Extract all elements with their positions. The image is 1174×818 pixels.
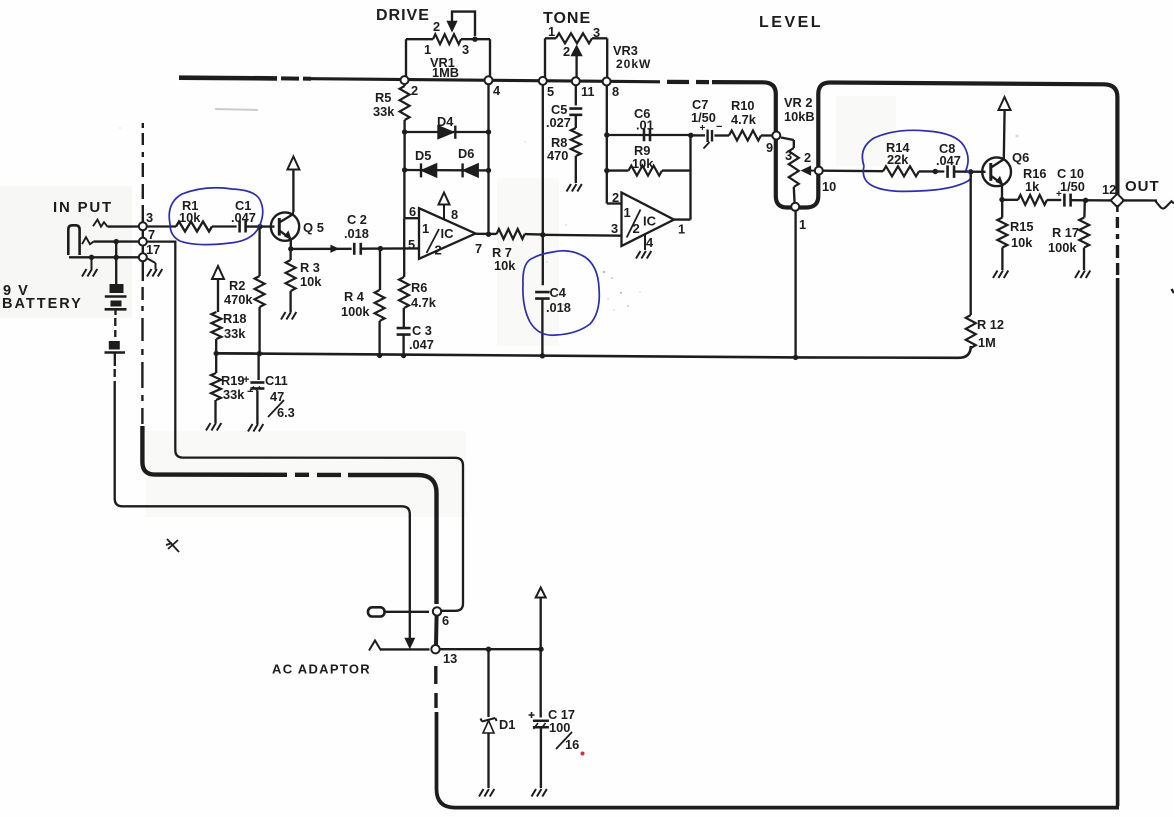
svg-text:Q6: Q6 <box>1012 150 1029 165</box>
svg-text:3: 3 <box>146 210 153 225</box>
svg-text:OUT: OUT <box>1125 178 1160 195</box>
svg-text:10k: 10k <box>494 258 516 273</box>
wire node11 to C5 <box>575 85 577 106</box>
svg-text:R6: R6 <box>411 280 427 295</box>
node 9 <box>772 132 780 140</box>
label C5 <box>551 102 567 117</box>
svg-text:R 17: R 17 <box>1052 225 1079 240</box>
wire VR3 right terminal <box>592 38 607 78</box>
label C4 <box>550 285 567 300</box>
label OUT <box>1125 178 1160 195</box>
wire sleeve ground stub <box>91 257 93 269</box>
label 12 <box>1102 182 1116 197</box>
wire C4 to rail <box>541 299 543 356</box>
capacitor C7 <box>704 130 713 149</box>
svg-text:2: 2 <box>804 150 811 165</box>
wire R2 to C11 <box>259 307 260 380</box>
svg-text:1k: 1k <box>1025 179 1040 194</box>
wiper arrow VR1 <box>448 12 476 36</box>
svg-text:C 2: C 2 <box>347 212 367 227</box>
ground (R15) <box>993 271 1008 279</box>
svg-text:100k: 100k <box>1048 240 1077 255</box>
diode D6 <box>463 163 479 177</box>
wire R1 to C1 <box>212 225 237 227</box>
power arrow Q6 <box>999 97 1011 110</box>
resistor R14 <box>883 166 919 176</box>
wire R18 junction to R2 <box>216 352 259 355</box>
faint scan artifact <box>215 109 258 110</box>
svg-text:.047: .047 <box>936 153 961 168</box>
wire C3 to rail <box>402 335 404 356</box>
svg-text:20kW: 20kW <box>616 57 651 71</box>
label R14 <box>886 140 910 155</box>
svg-text:.018: .018 <box>344 226 369 241</box>
label R1 value <box>179 210 201 225</box>
label C10 value <box>1060 179 1085 194</box>
wire right side dash-dot <box>1116 205 1119 275</box>
wire C5 to R8 <box>575 115 577 128</box>
label R5 <box>375 90 391 105</box>
svg-text:3: 3 <box>611 221 618 236</box>
wire bottom rail <box>437 712 1120 808</box>
potentiometer VR3 body <box>556 33 592 43</box>
node 7 <box>139 238 147 246</box>
resistor R5 <box>400 84 410 120</box>
junction dot R14-C8 <box>933 169 938 174</box>
svg-text:1: 1 <box>422 221 429 236</box>
label VR3 value <box>616 57 651 71</box>
capacitor C8 <box>948 165 955 178</box>
battery BT1 cell plates <box>105 284 127 315</box>
wire D4-D5 segment <box>403 132 405 170</box>
svg-text:470k: 470k <box>224 292 253 307</box>
wire pin3 of U1b <box>543 234 622 237</box>
svg-text:R5: R5 <box>375 90 391 105</box>
wire R4 top <box>379 249 381 290</box>
label TONE <box>543 10 591 27</box>
label half IC (U1a) <box>422 221 454 258</box>
svg-text:R 4: R 4 <box>344 289 365 304</box>
svg-text:22k: 22k <box>887 152 909 167</box>
wire battery dashed <box>114 318 116 337</box>
ground (C17) <box>532 789 547 797</box>
svg-text:C 3: C 3 <box>412 323 432 338</box>
wire jack sleeve line <box>69 256 144 258</box>
label 3 (VR3 pin) <box>593 25 600 40</box>
wire jack tip contact <box>93 220 140 227</box>
label R2 <box>229 278 245 293</box>
junction dot VR1 wiper <box>472 37 477 42</box>
C11 value slash <box>268 400 284 417</box>
capacitor C4 <box>535 292 550 299</box>
svg-text:10: 10 <box>822 179 836 194</box>
resistor R6 <box>399 277 409 308</box>
label R4 <box>344 289 365 304</box>
label C17 plus <box>529 712 535 718</box>
label R18 value <box>224 326 246 341</box>
transistor Q6 <box>982 157 1011 186</box>
label 2 (VR3 wiper) <box>563 44 570 59</box>
wire R6 to C3 <box>403 308 405 328</box>
label 7 <box>148 227 155 242</box>
svg-text:6: 6 <box>442 613 449 628</box>
label R12 value <box>978 335 996 350</box>
wire mid rail <box>216 346 971 358</box>
label R15 <box>1010 219 1033 234</box>
wire node4 down to output <box>487 83 489 234</box>
blue pen circle around R1 C1 <box>169 188 263 245</box>
wire R14 to C8 <box>919 170 944 172</box>
junction dot Q5 emitter <box>288 246 293 251</box>
arrowhead onto adaptor line <box>406 639 415 648</box>
wire node3-7-17 column <box>142 230 144 254</box>
label DRIVE <box>376 7 430 24</box>
junction dot D4 right <box>486 129 491 134</box>
ground (R17) <box>1075 271 1090 279</box>
resistor R3 <box>286 260 296 291</box>
label Q6 <box>1012 150 1029 165</box>
wire R7 to node5 line <box>525 233 543 236</box>
wire R2 top <box>258 227 260 276</box>
label R16 value <box>1025 179 1040 194</box>
svg-text:IC: IC <box>643 214 657 229</box>
capacitor C2 <box>354 243 361 255</box>
label R4 value <box>341 304 370 319</box>
resistor R15 <box>997 218 1007 248</box>
label C17 value 16 <box>565 737 579 752</box>
svg-text:2: 2 <box>563 44 570 59</box>
svg-text:9: 9 <box>766 140 773 155</box>
wire VR1 right terminal <box>461 39 490 77</box>
wire R10 to node9 <box>761 134 773 136</box>
svg-text:33k: 33k <box>223 387 245 402</box>
svg-text:R18: R18 <box>223 311 246 326</box>
flow arrowhead on wire <box>331 246 338 252</box>
power arrow Q5 collector <box>287 157 299 170</box>
junction dot node1-rail <box>793 355 798 360</box>
label C11 value 6.3 <box>277 405 295 420</box>
blue pen circle around C4 <box>523 251 599 335</box>
junction dot C10-R17 <box>1083 198 1088 203</box>
resistor R19 <box>211 373 221 400</box>
label VR1 <box>430 55 455 70</box>
svg-text:1: 1 <box>624 205 631 220</box>
label C11 <box>265 373 288 388</box>
label half IC (U1b) <box>624 205 657 238</box>
label R10 value <box>731 112 757 127</box>
wire U1b output <box>674 135 691 219</box>
label pin 5 <box>408 237 415 252</box>
capacitor C10 <box>1064 194 1070 207</box>
wire node5 down <box>542 85 544 286</box>
svg-text:−: − <box>716 121 722 133</box>
svg-text:4.7k: 4.7k <box>731 112 757 127</box>
wire node6-node13 segment <box>434 616 439 646</box>
label R19 <box>221 373 244 388</box>
ground (R19) <box>206 423 221 431</box>
label R3 <box>300 260 320 275</box>
wire R18 to R19 <box>215 339 217 373</box>
svg-text:1/50: 1/50 <box>1060 179 1085 194</box>
svg-text:2: 2 <box>411 83 418 98</box>
wire C17 top <box>540 598 542 718</box>
wire top bus dashed segment <box>667 80 709 84</box>
junction dot base-R2 <box>257 224 262 229</box>
wire C17 bottom <box>540 727 542 788</box>
resistor R1 <box>176 222 212 232</box>
power arrow R18 top <box>212 266 224 312</box>
svg-text:100: 100 <box>549 720 570 735</box>
dc jack plug <box>368 607 429 616</box>
junction dot C3-rail <box>401 353 406 358</box>
label R7 value <box>494 258 516 273</box>
label R12 <box>977 317 1004 332</box>
ground (C11) <box>248 424 263 432</box>
capacitor C17 electrolytic <box>533 721 549 729</box>
label 1 (VR3 pin) <box>548 24 555 39</box>
wire U1b pin4 <box>644 235 646 251</box>
junction dot emitter node <box>999 197 1004 202</box>
wire emitter to C2 <box>291 248 352 250</box>
resistor R18 <box>211 312 221 339</box>
svg-text:VR 2: VR 2 <box>784 95 812 110</box>
junction dot R2-rail <box>257 351 262 356</box>
svg-text:6.3: 6.3 <box>277 405 295 420</box>
output jack contact <box>1155 201 1174 293</box>
label 13 <box>443 651 457 666</box>
svg-text:4: 4 <box>646 235 654 250</box>
svg-text:4.7k: 4.7k <box>411 295 437 310</box>
wire emitter to R16 <box>1002 199 1018 201</box>
svg-text:LEVEL: LEVEL <box>759 14 823 31</box>
node 2 <box>401 76 409 84</box>
label R5 value <box>373 104 395 119</box>
label R9 <box>634 143 650 158</box>
node 13 <box>431 645 439 653</box>
label R3 value <box>300 274 322 289</box>
svg-text:D5: D5 <box>415 148 431 163</box>
ground (R3) <box>281 312 296 320</box>
label C1 value <box>231 210 256 225</box>
node 3 <box>139 222 147 230</box>
node 8 <box>603 78 611 86</box>
transistor Q5 <box>271 212 299 240</box>
capacitor C11 electrolytic <box>250 383 264 391</box>
svg-text:1: 1 <box>799 217 806 232</box>
ground (input sleeve) <box>82 269 97 277</box>
junction dot C4-rail <box>540 353 545 358</box>
label 17 <box>146 242 160 257</box>
wire C11 to ground <box>256 391 258 425</box>
label C7 plus <box>700 121 723 134</box>
adaptor tip contact <box>369 641 430 651</box>
wire D5 D6 line <box>405 169 489 172</box>
svg-text:2: 2 <box>633 221 640 236</box>
svg-text:1: 1 <box>678 222 685 237</box>
junction dot R7-pin3 <box>540 232 545 237</box>
capacitor C3 <box>397 328 411 335</box>
svg-text:470: 470 <box>547 148 568 163</box>
wiper arrow VR3 <box>572 46 582 78</box>
resistor R12 <box>966 315 976 348</box>
svg-text:IN PUT: IN PUT <box>53 199 113 216</box>
junction dot D6 right <box>486 168 491 173</box>
resistor R12 wire <box>970 172 972 315</box>
wire jack ring contact <box>82 237 140 244</box>
label C11 value 47 <box>270 389 284 404</box>
svg-text:.018: .018 <box>546 300 571 315</box>
svg-text:C4: C4 <box>550 285 567 300</box>
junction dot battery tap <box>114 239 119 244</box>
junction dot base-R12 <box>968 169 973 174</box>
wire node10 to R14 <box>823 170 883 173</box>
svg-text:5: 5 <box>547 84 554 99</box>
resistor R17 <box>1079 218 1089 248</box>
resistor R10 <box>729 131 761 141</box>
wire top bus left segment <box>179 78 311 79</box>
wire node8 down to pin2 <box>607 85 622 204</box>
junction dot R4-rail <box>377 353 382 358</box>
battery BT1 lower cell <box>105 341 126 366</box>
label C1 <box>235 198 251 213</box>
svg-text:10k: 10k <box>632 156 654 171</box>
wire Q6 collector <box>1003 110 1006 159</box>
label C6 value <box>636 118 654 133</box>
svg-text:C11: C11 <box>265 373 288 388</box>
label C17 <box>548 707 575 722</box>
svg-text:33k: 33k <box>373 104 395 119</box>
svg-text:2: 2 <box>433 19 440 34</box>
svg-text:D6: D6 <box>458 146 474 161</box>
ground (U1b pin4) <box>636 251 651 259</box>
wiper arrow VR2 <box>802 167 816 175</box>
label R1 <box>182 198 198 213</box>
wire VR2 top terminal <box>781 138 794 149</box>
label R6 value <box>411 295 437 310</box>
wire D4 line <box>405 131 489 133</box>
label 11 (node) <box>581 84 595 99</box>
wire to C7 <box>691 134 705 136</box>
svg-text:IC: IC <box>441 226 455 241</box>
diode D4 <box>438 126 455 139</box>
svg-text:R 12: R 12 <box>977 317 1004 332</box>
junction dot R9 left <box>604 168 609 173</box>
label R9 value <box>632 156 654 171</box>
wire R4 to rail <box>378 321 380 355</box>
node 6 <box>433 607 441 615</box>
label C10 plus <box>1056 189 1062 200</box>
junction dot C6 left <box>604 132 609 137</box>
power arrow IC1a <box>439 193 450 220</box>
svg-text:VR3: VR3 <box>613 43 638 58</box>
label VR2 value <box>784 109 815 124</box>
potentiometer VR1 body <box>433 34 461 44</box>
svg-text:1/50: 1/50 <box>691 110 716 125</box>
svg-text:R15: R15 <box>1010 219 1033 234</box>
svg-text:−: − <box>247 386 253 398</box>
label R15 value <box>1011 235 1033 250</box>
label D6 <box>458 146 474 161</box>
junction dot D5 left <box>402 167 407 172</box>
scan speckles <box>119 127 1019 311</box>
label pin 1 <box>678 222 685 237</box>
capacitor C1 <box>240 221 246 233</box>
label pin 7 <box>475 241 482 256</box>
wire dash-dot below node 17 <box>141 261 144 424</box>
label 8 (node) <box>612 84 619 99</box>
light scan shading <box>0 96 896 517</box>
junction dot feedback-output <box>486 232 491 237</box>
wire node1 down to rail <box>794 211 796 358</box>
label Q5 <box>303 220 324 235</box>
op-amp U1b triangle <box>622 193 675 247</box>
label R17 value <box>1048 240 1077 255</box>
label R8 <box>551 135 567 150</box>
wire opamp out to R7 <box>476 233 497 235</box>
label C11 plus <box>243 374 249 386</box>
label 2 (VR1 pin) <box>411 83 418 98</box>
svg-text:Q 5: Q 5 <box>303 220 324 235</box>
label pin 6 <box>409 204 416 219</box>
junction dot C2-R4 <box>378 246 383 251</box>
svg-text:R19: R19 <box>221 373 244 388</box>
diode D5 <box>421 163 437 177</box>
node 12 diamond <box>1111 194 1124 207</box>
svg-text:4: 4 <box>493 83 501 98</box>
junction dot D4 left <box>402 129 407 134</box>
wire top bus through DRIVE/TONE <box>311 79 660 82</box>
wire C1 to Q5 base <box>246 225 275 227</box>
svg-text:1M: 1M <box>978 335 996 350</box>
label C11 minus <box>247 386 253 398</box>
wire node7 to lower bend <box>147 242 463 611</box>
svg-text:13: 13 <box>443 651 457 666</box>
label IN PUT <box>53 199 113 216</box>
label C4 value <box>546 300 571 315</box>
label D5 <box>415 148 431 163</box>
C17 value slash <box>556 732 572 749</box>
ground (D1) <box>479 789 494 797</box>
node 5 <box>539 77 547 85</box>
label 5 (node) <box>547 84 554 99</box>
svg-text:AC ADAPTOR: AC ADAPTOR <box>272 662 371 677</box>
wire battery lead to adaptor arrow <box>409 516 411 639</box>
node 10 <box>815 167 823 175</box>
label C6 <box>634 106 650 121</box>
label D1 <box>499 717 515 732</box>
wire battery feed <box>115 242 117 284</box>
label 6 (node) <box>442 613 449 628</box>
svg-text:10k: 10k <box>179 210 201 225</box>
label pin 2 <box>612 190 619 205</box>
wire dash-dot above node 3 <box>142 123 144 223</box>
label VR 2 <box>784 95 812 110</box>
label D4 <box>437 114 454 129</box>
label pin 4 <box>646 235 654 250</box>
wire R5 to D4 junction <box>403 120 405 132</box>
wire C6 line <box>607 134 691 136</box>
svg-text:DRIVE: DRIVE <box>376 7 430 24</box>
label 1 (VR2 pin) <box>799 217 806 232</box>
capacitor C6 <box>644 129 650 142</box>
junction dot battery-sleeve cross <box>114 255 119 260</box>
label R14 value <box>887 152 909 167</box>
wire Q6 emitter <box>1001 184 1003 200</box>
power arrow C17 <box>536 588 546 598</box>
resistor R4 <box>375 290 385 321</box>
label VR3 <box>613 43 638 58</box>
junction dot sleeve-ground <box>89 255 94 260</box>
